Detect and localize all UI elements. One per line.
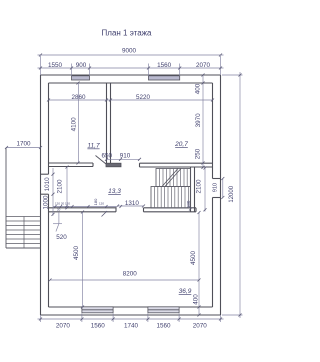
wall outer left [40,75,42,315]
wall inner top [49,82,213,84]
dim 650-910 line [106,158,140,160]
dim 3970-400-250 line [202,75,204,168]
svg-text:4100: 4100 [70,117,77,132]
wall outer right [220,75,222,315]
wall inner left lower [48,194,50,307]
svg-text:12000: 12000 [229,185,235,202]
svg-text:400: 400 [194,83,201,94]
svg-text:120 20 120: 120 20 120 [55,202,70,206]
wall inner left upper [48,83,50,174]
svg-text:20,7: 20,7 [174,141,188,148]
svg-text:1560: 1560 [157,62,172,69]
wall right of stair [190,167,192,212]
svg-text:180: 180 [93,198,98,205]
interior wall vertical between top rooms [106,83,108,163]
svg-text:2100: 2100 [195,179,202,194]
ext lines top [40,56,42,75]
dim 4500-400 right line [198,213,200,316]
svg-text:910: 910 [120,153,131,160]
svg-text:20: 20 [57,208,61,212]
wall inner bottom [49,306,213,308]
svg-text:5220: 5220 [136,94,151,101]
svg-text:1700: 1700 [16,141,31,148]
svg-text:2100: 2100 [57,179,64,194]
svg-text:1310: 1310 [125,200,140,207]
interior wall horizontal left segment [49,162,94,164]
svg-text:2070: 2070 [56,322,71,329]
svg-text:1740: 1740 [124,322,139,329]
door jamb left wall bottom [41,193,49,195]
svg-text:120: 120 [99,202,104,206]
svg-text:520: 520 [56,234,67,241]
svg-text:2070: 2070 [193,322,208,329]
dim small chain line [53,206,116,208]
svg-text:900: 900 [76,62,87,69]
wall inner right lower [212,198,214,308]
door leaf interior [96,156,107,165]
dim 9000 line [38,54,224,56]
svg-text:8200: 8200 [123,271,138,278]
porch left edge [6,148,41,249]
door jamb right wall top [213,178,221,180]
svg-text:250: 250 [195,148,202,159]
dim 4100 line [78,83,80,163]
svg-text:2860: 2860 [71,94,86,101]
window bottom 1 [82,307,113,313]
dim 4500 left line [82,212,84,307]
dim 8200 line [50,279,199,281]
leader 520 [58,212,60,224]
wall outer bottom [41,314,221,316]
svg-text:4500: 4500 [190,251,197,266]
ext 12000 bottom [222,314,243,316]
window bottom 2 [148,307,179,313]
svg-text:11,7: 11,7 [87,143,100,150]
dim 12000 line [239,72,241,318]
wall inner right upper [212,83,214,179]
svg-text:9000: 9000 [122,48,137,55]
svg-text:План 1 этажа: План 1 этажа [102,28,152,37]
window top 1 [72,76,90,80]
ext 12000 top [222,74,243,76]
svg-text:1560: 1560 [156,322,171,329]
svg-text:13,3: 13,3 [108,188,121,195]
interior wall stair top [140,162,213,164]
stair upper flight box [156,169,191,187]
porch bottom edge [6,247,41,249]
svg-text:2070: 2070 [196,62,211,69]
dim bottom row line [38,318,224,320]
dimension lines [6,55,243,322]
stair break line [162,169,181,187]
window top 2 [149,76,180,80]
dim ticks [5,54,242,321]
dim 1700 line [6,147,41,149]
dim left 1010-1000 line [52,168,54,216]
svg-text:1010: 1010 [44,177,51,192]
dim 1310 line [118,205,144,207]
svg-text:1000: 1000 [43,195,50,210]
stair risers lower flight [154,187,188,209]
stair lower flight box [151,169,191,209]
porch steps [6,217,41,249]
svg-text:180: 180 [186,200,191,208]
stair risers upper flight [160,169,188,187]
svg-text:3970: 3970 [195,113,202,128]
svg-text:400: 400 [192,294,199,305]
ext lines bottom [40,315,42,322]
dim 2100 hall line [66,167,68,208]
door jamb right wall bottom [213,197,221,199]
svg-text:910: 910 [213,183,219,192]
svg-text:4500: 4500 [73,246,80,261]
svg-text:650: 650 [102,153,113,160]
door jamb left wall top [41,173,49,175]
svg-text:1560: 1560 [91,322,106,329]
dim 910 right line [222,179,224,198]
interior wall stub by door [106,163,121,167]
corridor bottom wall [49,207,117,209]
dim 2860-5220 line [49,99,213,101]
dim 2100 stair line [204,167,206,212]
svg-text:1550: 1550 [48,62,63,69]
wall outer top [41,74,221,76]
dim row2 top line [38,67,224,69]
svg-text:36,9: 36,9 [179,288,192,295]
porch middle line [23,217,25,249]
